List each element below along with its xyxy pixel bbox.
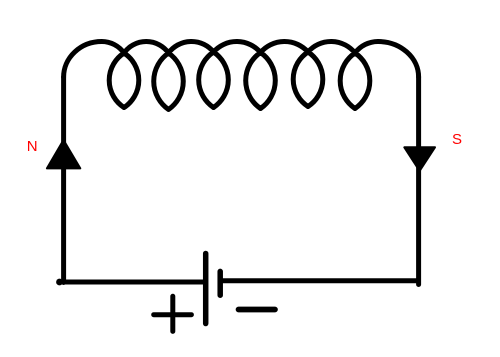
inductor L1 coil [64,41,419,109]
wire left vertical branch [61,77,66,283]
wire bottom-right segment [223,278,418,283]
wire bottom-left segment [61,280,204,285]
arrowhead current direction up (left branch) [47,140,80,168]
arrowhead current direction down (right branch) [404,147,435,171]
node bottom-left corner junction blob [56,279,63,286]
node label S (south pole) [452,132,462,147]
battery plus sign label [154,296,192,331]
wire right vertical branch [416,77,421,285]
node label N (north pole) [27,139,38,154]
battery B1 negative plate (short) [217,271,223,295]
battery minus sign label [239,307,276,313]
battery B1 positive plate (long) [203,254,209,324]
